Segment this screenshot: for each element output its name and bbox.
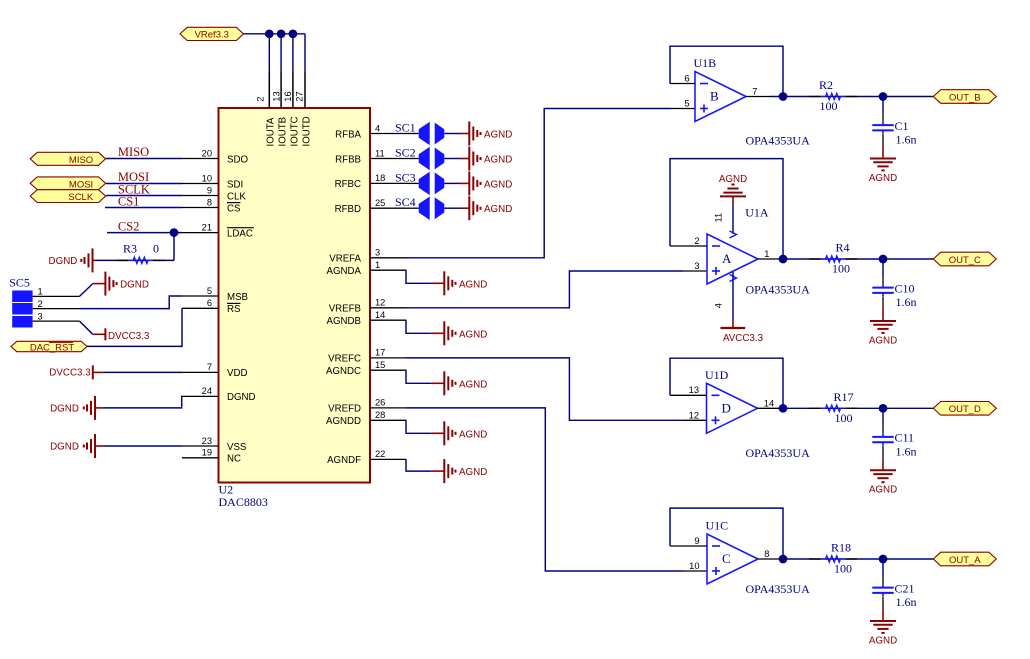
svg-text:IOUTB: IOUTB xyxy=(278,117,289,147)
svg-text:1.6n: 1.6n xyxy=(896,133,917,147)
svg-text:AVCC3.3: AVCC3.3 xyxy=(723,333,764,344)
svg-text:100: 100 xyxy=(834,562,852,576)
svg-text:20: 20 xyxy=(202,148,212,158)
svg-text:16: 16 xyxy=(283,91,293,101)
svg-text:3: 3 xyxy=(375,248,380,258)
svg-text:1: 1 xyxy=(764,249,769,259)
svg-text:11: 11 xyxy=(713,213,723,223)
svg-text:2: 2 xyxy=(694,236,699,246)
svg-text:2: 2 xyxy=(255,97,265,102)
svg-text:IOUTC: IOUTC xyxy=(289,116,300,146)
svg-text:8: 8 xyxy=(764,549,769,559)
svg-text:OPA4353UA: OPA4353UA xyxy=(746,134,811,148)
svg-text:SCLK: SCLK xyxy=(68,192,93,203)
svg-text:28: 28 xyxy=(375,410,385,420)
svg-text:AGND: AGND xyxy=(484,204,512,215)
svg-text:AGND: AGND xyxy=(869,335,897,346)
svg-text:17: 17 xyxy=(375,348,385,358)
svg-text:MISO: MISO xyxy=(69,155,93,166)
svg-text:10: 10 xyxy=(689,561,699,571)
svg-text:DGND: DGND xyxy=(50,403,79,414)
svg-text:7: 7 xyxy=(752,87,757,97)
svg-text:U1D: U1D xyxy=(705,368,729,382)
svg-text:19: 19 xyxy=(202,448,212,458)
svg-text:6: 6 xyxy=(207,298,212,308)
svg-text:RFBC: RFBC xyxy=(335,179,361,190)
svg-text:U1B: U1B xyxy=(694,56,717,70)
svg-text:VREFA: VREFA xyxy=(329,254,361,265)
svg-text:R2: R2 xyxy=(819,78,833,92)
svg-text:27: 27 xyxy=(295,91,305,101)
svg-text:VSS: VSS xyxy=(227,442,247,453)
svg-text:SC1: SC1 xyxy=(395,121,416,135)
svg-text:DGND: DGND xyxy=(120,280,149,291)
svg-text:100: 100 xyxy=(832,262,850,276)
svg-text:C10: C10 xyxy=(895,281,915,295)
svg-text:6: 6 xyxy=(684,73,689,83)
svg-text:RFBD: RFBD xyxy=(335,204,361,215)
svg-text:IOUTA: IOUTA xyxy=(266,117,277,146)
svg-text:AGND: AGND xyxy=(869,635,897,646)
svg-text:9: 9 xyxy=(207,185,212,195)
svg-text:NC: NC xyxy=(227,454,241,465)
svg-text:AGNDF: AGNDF xyxy=(327,455,361,466)
svg-text:10: 10 xyxy=(202,173,212,183)
svg-text:11: 11 xyxy=(375,148,385,158)
svg-text:VREFD: VREFD xyxy=(328,404,361,415)
svg-text:AGND: AGND xyxy=(459,467,487,478)
svg-text:AGND: AGND xyxy=(484,179,512,190)
svg-text:CS: CS xyxy=(227,203,241,214)
svg-text:OPA4353UA: OPA4353UA xyxy=(746,582,811,596)
svg-text:SC3: SC3 xyxy=(395,170,416,184)
svg-text:R17: R17 xyxy=(833,390,853,404)
svg-text:DGND: DGND xyxy=(227,392,256,403)
svg-text:AGNDA: AGNDA xyxy=(327,266,362,277)
svg-text:RFBB: RFBB xyxy=(335,154,361,165)
svg-text:OUT_B: OUT_B xyxy=(949,92,981,103)
svg-text:18: 18 xyxy=(375,173,385,183)
svg-text:U1A: U1A xyxy=(745,205,769,219)
svg-text:OUT_A: OUT_A xyxy=(949,555,981,566)
svg-text:CS2: CS2 xyxy=(118,220,140,234)
svg-text:AGND: AGND xyxy=(459,329,487,340)
svg-text:8: 8 xyxy=(207,197,212,207)
svg-text:SDI: SDI xyxy=(227,179,243,190)
svg-text:2: 2 xyxy=(38,299,43,309)
svg-text:C: C xyxy=(722,551,731,566)
svg-text:7: 7 xyxy=(207,362,212,372)
svg-text:AGND: AGND xyxy=(459,279,487,290)
svg-text:14: 14 xyxy=(764,398,774,408)
svg-text:21: 21 xyxy=(202,222,212,232)
svg-text:9: 9 xyxy=(694,536,699,546)
svg-text:12: 12 xyxy=(689,410,699,420)
svg-text:AGND: AGND xyxy=(459,379,487,390)
svg-text:SC5: SC5 xyxy=(9,275,30,289)
svg-text:4: 4 xyxy=(375,123,380,133)
svg-text:LDAC: LDAC xyxy=(227,228,253,239)
svg-text:SC2: SC2 xyxy=(395,146,416,160)
svg-text:22: 22 xyxy=(375,449,385,459)
svg-text:A: A xyxy=(722,251,732,266)
svg-text:25: 25 xyxy=(375,198,385,208)
svg-text:RFBA: RFBA xyxy=(335,129,361,140)
svg-text:OPA4353UA: OPA4353UA xyxy=(746,283,811,297)
svg-text:AGNDB: AGNDB xyxy=(327,316,361,327)
svg-text:VREFB: VREFB xyxy=(329,304,361,315)
svg-text:OUT_C: OUT_C xyxy=(949,255,981,266)
svg-text:23: 23 xyxy=(202,436,212,446)
svg-text:1: 1 xyxy=(38,286,43,296)
svg-text:1.6n: 1.6n xyxy=(896,295,917,309)
svg-text:5: 5 xyxy=(207,286,212,296)
svg-text:13: 13 xyxy=(272,91,282,101)
svg-text:100: 100 xyxy=(820,99,838,113)
svg-text:AGND: AGND xyxy=(459,429,487,440)
svg-text:SC4: SC4 xyxy=(395,195,416,209)
svg-text:4: 4 xyxy=(713,303,723,308)
svg-text:R18: R18 xyxy=(831,541,851,555)
svg-text:C1: C1 xyxy=(895,119,909,133)
svg-text:DVCC3.3: DVCC3.3 xyxy=(49,368,91,379)
svg-text:26: 26 xyxy=(375,398,385,408)
svg-text:AGND: AGND xyxy=(484,130,512,141)
svg-text:15: 15 xyxy=(375,360,385,370)
svg-text:VDD: VDD xyxy=(227,368,247,379)
svg-text:RS: RS xyxy=(227,304,241,315)
svg-text:1.6n: 1.6n xyxy=(896,444,917,458)
svg-text:100: 100 xyxy=(835,411,853,425)
svg-text:3: 3 xyxy=(694,261,699,271)
svg-text:DVCC3.3: DVCC3.3 xyxy=(108,331,150,342)
svg-text:R3: R3 xyxy=(123,241,137,255)
svg-text:0: 0 xyxy=(153,241,159,255)
svg-text:DGND: DGND xyxy=(49,256,78,267)
svg-text:VREFC: VREFC xyxy=(328,354,361,365)
svg-text:VRef3.3: VRef3.3 xyxy=(195,30,229,41)
svg-text:AGNDC: AGNDC xyxy=(326,366,361,377)
svg-text:13: 13 xyxy=(689,385,699,395)
svg-text:IOUTD: IOUTD xyxy=(301,116,312,146)
svg-text:DAC_RST: DAC_RST xyxy=(30,342,75,353)
svg-text:MSB: MSB xyxy=(227,292,248,303)
svg-text:AGND: AGND xyxy=(869,485,897,496)
svg-text:AGND: AGND xyxy=(719,174,747,185)
svg-text:1: 1 xyxy=(375,260,380,270)
svg-text:5: 5 xyxy=(684,99,689,109)
svg-text:MISO: MISO xyxy=(118,145,149,159)
svg-text:14: 14 xyxy=(375,310,385,320)
svg-text:DAC8803: DAC8803 xyxy=(219,495,268,509)
svg-text:B: B xyxy=(710,89,719,104)
svg-text:AGNDD: AGNDD xyxy=(326,416,361,427)
svg-text:24: 24 xyxy=(202,386,212,396)
svg-text:D: D xyxy=(722,401,731,416)
svg-text:C21: C21 xyxy=(895,581,915,595)
svg-text:CS1: CS1 xyxy=(118,194,140,208)
svg-text:C11: C11 xyxy=(895,431,915,445)
svg-text:OUT_D: OUT_D xyxy=(949,404,981,415)
svg-text:AGND: AGND xyxy=(484,155,512,166)
svg-text:12: 12 xyxy=(375,298,385,308)
svg-text:CLK: CLK xyxy=(227,191,246,202)
svg-text:R4: R4 xyxy=(835,241,849,255)
svg-text:MOSI: MOSI xyxy=(69,179,93,190)
svg-text:1.6n: 1.6n xyxy=(896,595,917,609)
svg-text:OPA4353UA: OPA4353UA xyxy=(746,446,811,460)
svg-text:U1C: U1C xyxy=(706,519,729,533)
svg-text:SDO: SDO xyxy=(227,154,248,165)
svg-text:AGND: AGND xyxy=(869,173,897,184)
svg-text:DGND: DGND xyxy=(50,442,79,453)
svg-text:3: 3 xyxy=(38,311,43,321)
